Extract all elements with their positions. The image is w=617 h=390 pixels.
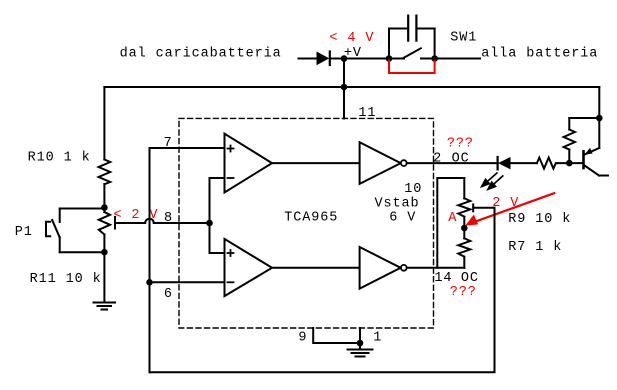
wire pin7 xyxy=(150,148,225,372)
svg-text:2: 2 xyxy=(433,151,442,166)
trimmer R9 wiper xyxy=(473,204,494,211)
node pin8 junction xyxy=(206,220,213,227)
buffer U1b (open-collector output 14) xyxy=(360,247,407,289)
wire charger input xyxy=(299,58,318,60)
svg-text:TCA965: TCA965 xyxy=(284,211,338,226)
wire to battery xyxy=(435,58,480,60)
wire P1 top xyxy=(60,208,105,210)
svg-text:9: 9 xyxy=(298,331,307,346)
svg-text:+V: +V xyxy=(344,46,362,61)
svg-text:SW1: SW1 xyxy=(450,31,477,46)
switch SW1 xyxy=(386,48,438,62)
red annotation arrow to node A xyxy=(465,193,554,225)
pushbutton P1 xyxy=(46,209,60,253)
wire comp1 to buffer1 xyxy=(272,162,360,164)
resistor base pull-up xyxy=(564,118,575,163)
transistor Q1 (PNP) xyxy=(584,118,609,176)
svg-text:R10 1 k: R10 1 k xyxy=(28,150,91,165)
wire R9 loop xyxy=(437,178,464,268)
ground (IC) xyxy=(348,343,373,357)
wire +V rail xyxy=(104,86,599,88)
svg-text:OC: OC xyxy=(452,151,470,166)
LED emission arrows xyxy=(482,173,504,190)
svg-text:???: ??? xyxy=(447,136,474,151)
wire hop over feedback xyxy=(145,219,154,223)
svg-text:6: 6 xyxy=(164,287,173,302)
node pin6 junction xyxy=(146,279,153,286)
resistor LED series xyxy=(537,158,558,169)
wire pin9 xyxy=(313,328,360,343)
svg-text:R9 10 k: R9 10 k xyxy=(508,212,571,227)
svg-text:10: 10 xyxy=(404,182,422,197)
wire rail right drop to transistor xyxy=(598,87,600,118)
wire pin2 output xyxy=(407,162,498,164)
svg-text:< 4 V: < 4 V xyxy=(329,31,374,46)
svg-text:Vstab: Vstab xyxy=(375,196,420,211)
resistor R7 xyxy=(458,238,470,267)
node A xyxy=(461,225,468,232)
node emitter junction xyxy=(596,115,603,122)
wire pin1 xyxy=(359,328,361,343)
SW1 closed contact highlight (red) xyxy=(389,61,435,74)
wire pull-up top xyxy=(569,117,599,119)
LED DL1 xyxy=(498,157,537,169)
svg-text:R11 10 k: R11 10 k xyxy=(30,272,102,287)
node base junction xyxy=(566,160,573,167)
op-amp comparator 2 xyxy=(225,239,273,296)
svg-text:dal caricabatteria: dal caricabatteria xyxy=(120,47,282,62)
wire pin6 xyxy=(150,281,225,283)
capacitor across SW1 xyxy=(389,16,435,59)
svg-text:OC: OC xyxy=(461,271,479,286)
wire to comp1 inverting input xyxy=(210,178,225,223)
svg-text:A: A xyxy=(448,211,457,226)
svg-text:7: 7 xyxy=(164,136,173,151)
node pot top xyxy=(101,204,108,211)
wire pin14 output xyxy=(407,267,465,269)
diode D1 xyxy=(317,52,390,66)
op-amp comparator 1 xyxy=(225,134,273,193)
resistor R10 xyxy=(99,160,111,208)
svg-text:P1: P1 xyxy=(15,225,33,240)
wire pin8 with hop xyxy=(154,222,210,224)
trimmer R9 xyxy=(458,178,470,238)
svg-text:R7 1 k: R7 1 k xyxy=(508,240,562,255)
svg-text:8: 8 xyxy=(164,211,173,226)
wire R11 to ground xyxy=(103,252,105,302)
svg-text:2 V: 2 V xyxy=(492,196,519,211)
wire P1 bottom xyxy=(60,251,105,253)
svg-text:< 2 V: < 2 V xyxy=(113,208,158,223)
wire feedback from R9 wiper xyxy=(150,208,495,372)
svg-text:alla batteria: alla batteria xyxy=(481,47,598,62)
wire to comp2 noninverting input xyxy=(210,223,225,253)
wire rail left drop to R10 xyxy=(103,87,105,160)
svg-text:6 V: 6 V xyxy=(389,211,416,226)
node pin1 ground junction xyxy=(357,340,364,347)
node pot bottom xyxy=(101,249,108,256)
IC TCA965 dashed box xyxy=(179,118,434,328)
svg-text:1: 1 xyxy=(373,330,382,345)
trimmer R11 body xyxy=(99,208,110,253)
trimmer R11 wiper xyxy=(115,217,145,229)
wire resistor to base xyxy=(557,162,583,164)
wire +V vertical drop xyxy=(343,59,345,119)
buffer U1a (open-collector output 2) xyxy=(360,142,407,184)
svg-text:???: ??? xyxy=(450,285,477,300)
node +V junction xyxy=(341,55,348,62)
wire comp2 to buffer2 xyxy=(272,267,360,269)
node rail junction xyxy=(341,84,348,91)
ground (left) xyxy=(94,303,116,310)
